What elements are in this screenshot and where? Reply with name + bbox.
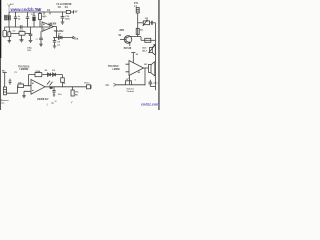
svg-text:LM386N: LM386N bbox=[20, 69, 29, 71]
svg-text:3: 3 bbox=[128, 78, 129, 80]
svg-text:470u: 470u bbox=[65, 18, 70, 21]
svg-text:Volume: Volume bbox=[127, 88, 135, 90]
svg-text:+10u: +10u bbox=[153, 82, 159, 84]
svg-text:TDA7052A: TDA7052A bbox=[18, 65, 30, 68]
svg-text:BC548: BC548 bbox=[124, 47, 132, 50]
svg-text:www.cndzb.TW: www.cndzb.TW bbox=[10, 7, 43, 12]
svg-text:F0.1A DW04B: F0.1A DW04B bbox=[57, 3, 72, 6]
svg-text:8Ω: 8Ω bbox=[144, 64, 147, 66]
svg-text:TDA2822: TDA2822 bbox=[54, 30, 65, 33]
svg-text:Control: Control bbox=[127, 90, 135, 93]
svg-text:82: 82 bbox=[55, 101, 57, 103]
svg-text:6: 6 bbox=[135, 80, 136, 82]
svg-text:Electret: Electret bbox=[1, 99, 9, 102]
svg-text:cndzz.com: cndzz.com bbox=[141, 102, 159, 106]
svg-text:dBV: dBV bbox=[119, 29, 124, 32]
svg-text:Out: Out bbox=[74, 38, 78, 41]
svg-text:LM386: LM386 bbox=[113, 69, 121, 71]
svg-text:16V: 16V bbox=[27, 50, 31, 52]
svg-text:LM358 IC2: LM358 IC2 bbox=[37, 99, 49, 101]
svg-text:TDA7052/: TDA7052/ bbox=[108, 65, 119, 68]
svg-text:100u: 100u bbox=[27, 47, 32, 49]
svg-text:LM386: LM386 bbox=[49, 22, 57, 25]
svg-text:100k: 100k bbox=[35, 71, 41, 73]
svg-text:C9 1u: C9 1u bbox=[84, 83, 90, 85]
svg-text:9V: 9V bbox=[75, 11, 78, 13]
